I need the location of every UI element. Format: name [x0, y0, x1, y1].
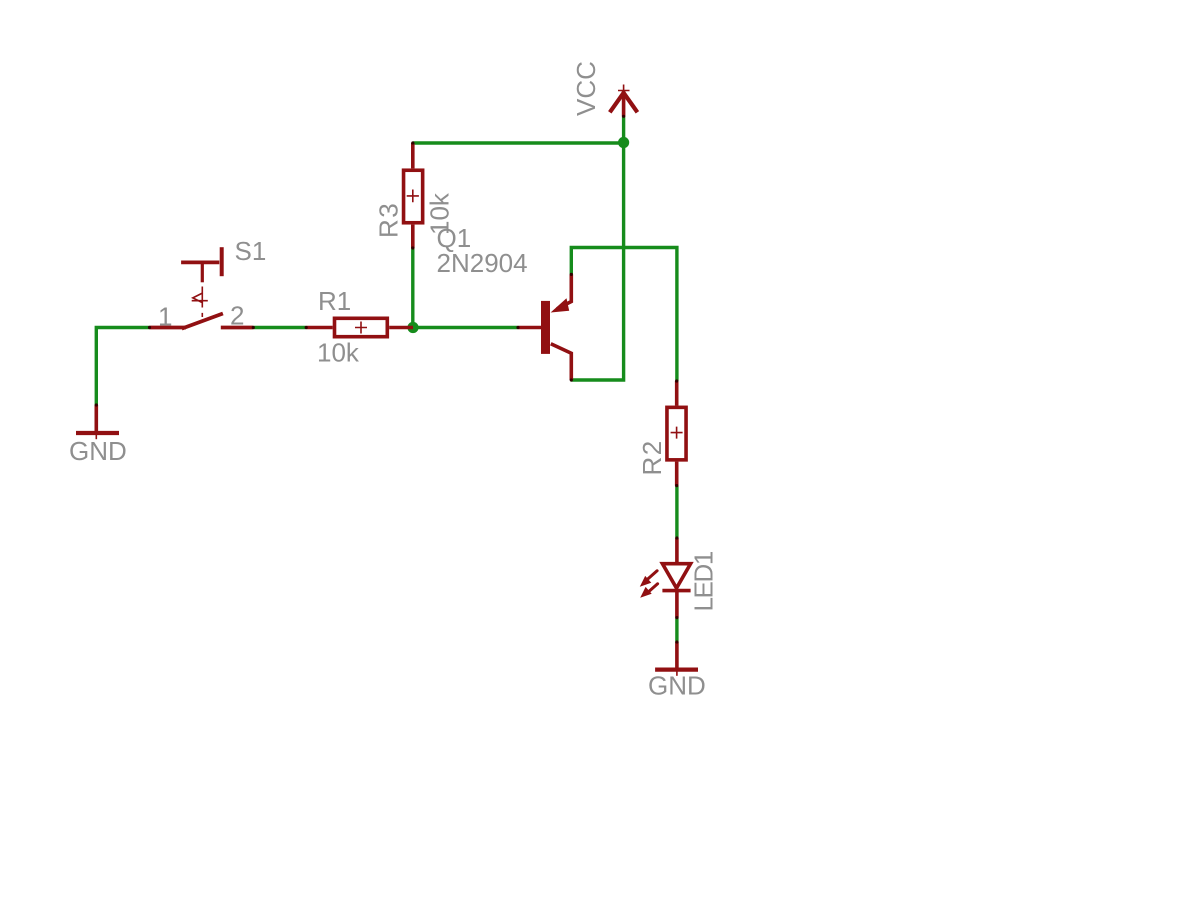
svg-text:S1: S1 — [235, 236, 267, 266]
svg-text:2N2904: 2N2904 — [437, 248, 528, 278]
svg-text:VCC: VCC — [571, 61, 601, 116]
svg-text:2: 2 — [230, 301, 244, 331]
svg-text:GND: GND — [69, 436, 127, 466]
svg-text:R3: R3 — [373, 202, 403, 238]
svg-text:LED1: LED1 — [688, 551, 718, 611]
svg-text:R2: R2 — [637, 439, 667, 475]
svg-text:GND: GND — [648, 671, 706, 701]
svg-text:1: 1 — [158, 302, 172, 332]
svg-text:R1: R1 — [318, 286, 351, 316]
svg-text:10k: 10k — [424, 192, 454, 235]
svg-text:10k: 10k — [317, 338, 360, 368]
